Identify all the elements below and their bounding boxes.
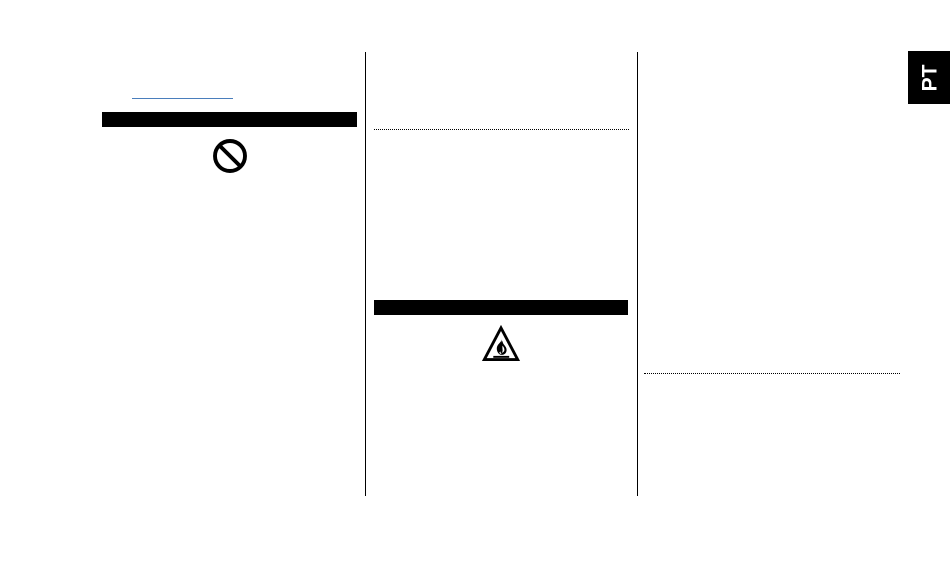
- heading bar (column 2): [374, 300, 628, 315]
- heading bar (column 1): [102, 112, 356, 126]
- hyperlink underline (blue rule, column 1): [132, 98, 233, 100]
- column rule 1 (vertical separator): [365, 52, 366, 496]
- dotted rule (column 3): [644, 373, 900, 374]
- dotted rule (column 2): [374, 129, 629, 130]
- PT language tab: [908, 51, 950, 104]
- flammable warning triangle: [481, 325, 521, 362]
- column rule 2 (vertical separator): [637, 52, 638, 496]
- prohibition icon (circle with slash): [213, 139, 247, 173]
